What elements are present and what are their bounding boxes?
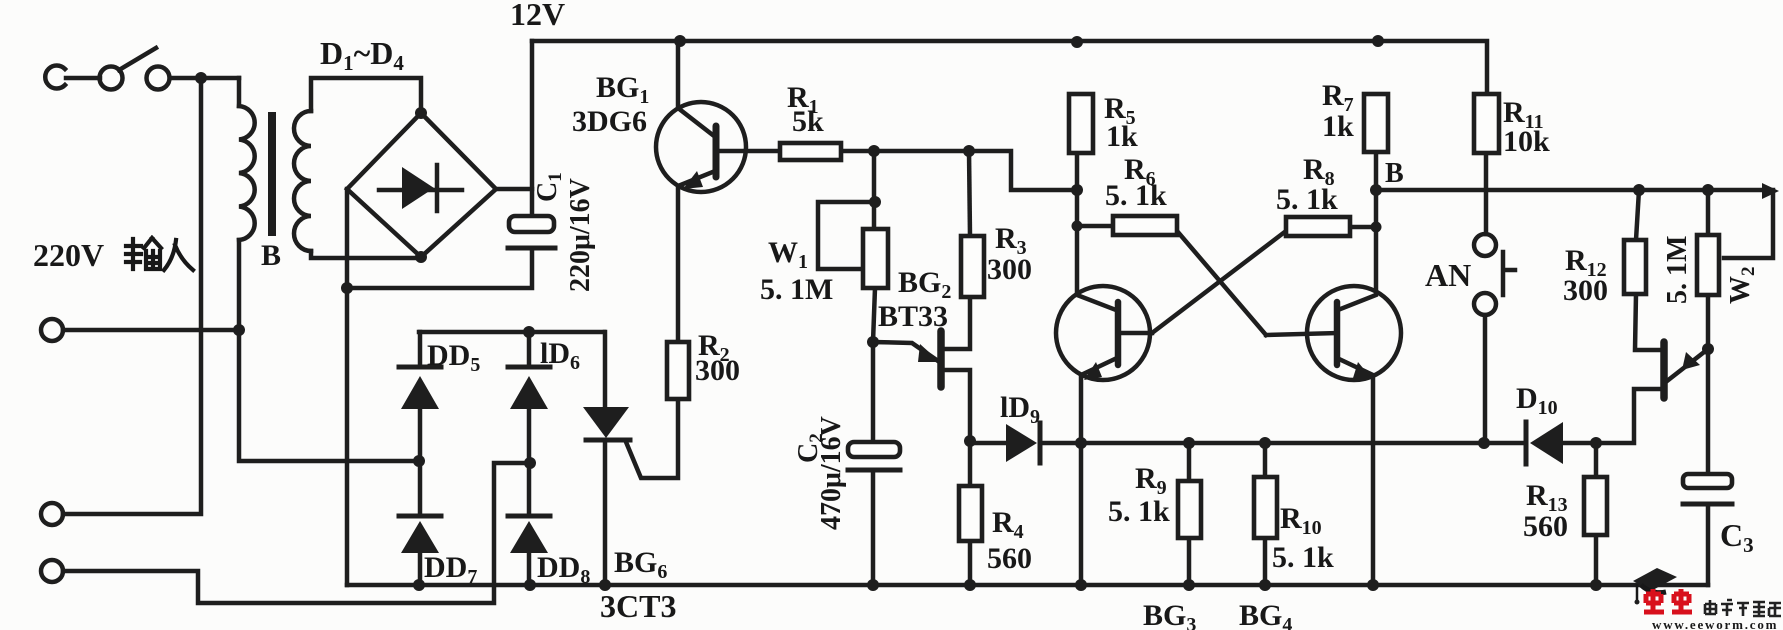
svg-text:5. 1k: 5. 1k bbox=[1108, 495, 1170, 528]
svg-text:3DG6: 3DG6 bbox=[572, 105, 647, 138]
svg-text:1k: 1k bbox=[1106, 120, 1138, 153]
svg-text:300: 300 bbox=[987, 253, 1032, 286]
svg-text:1k: 1k bbox=[1322, 110, 1354, 143]
svg-text:5. 1k: 5. 1k bbox=[1105, 179, 1167, 212]
svg-text:10k: 10k bbox=[1503, 125, 1550, 158]
svg-text:5. 1k: 5. 1k bbox=[1276, 183, 1338, 216]
svg-text:D1~D4: D1~D4 bbox=[320, 35, 404, 75]
svg-text:B: B bbox=[261, 239, 281, 272]
svg-text:300: 300 bbox=[695, 354, 740, 387]
svg-text:220V: 220V bbox=[33, 237, 104, 273]
svg-text:220μ/16V: 220μ/16V bbox=[565, 178, 596, 292]
svg-text:300: 300 bbox=[1563, 274, 1608, 307]
svg-text:B: B bbox=[1385, 158, 1404, 189]
svg-text:470μ/16V: 470μ/16V bbox=[816, 416, 847, 530]
svg-text:5. 1M: 5. 1M bbox=[760, 273, 833, 306]
svg-text:560: 560 bbox=[987, 542, 1032, 575]
svg-text:AN: AN bbox=[1425, 257, 1471, 293]
svg-text:BT33: BT33 bbox=[878, 300, 948, 333]
svg-text:3CT3: 3CT3 bbox=[600, 588, 676, 624]
svg-text:560: 560 bbox=[1523, 510, 1568, 543]
svg-text:12V: 12V bbox=[510, 0, 565, 32]
svg-text:www.eeworm.com: www.eeworm.com bbox=[1652, 617, 1778, 630]
svg-text:5. 1M: 5. 1M bbox=[1662, 236, 1693, 304]
svg-text:5. 1k: 5. 1k bbox=[1272, 541, 1334, 574]
svg-text:5k: 5k bbox=[792, 105, 824, 138]
